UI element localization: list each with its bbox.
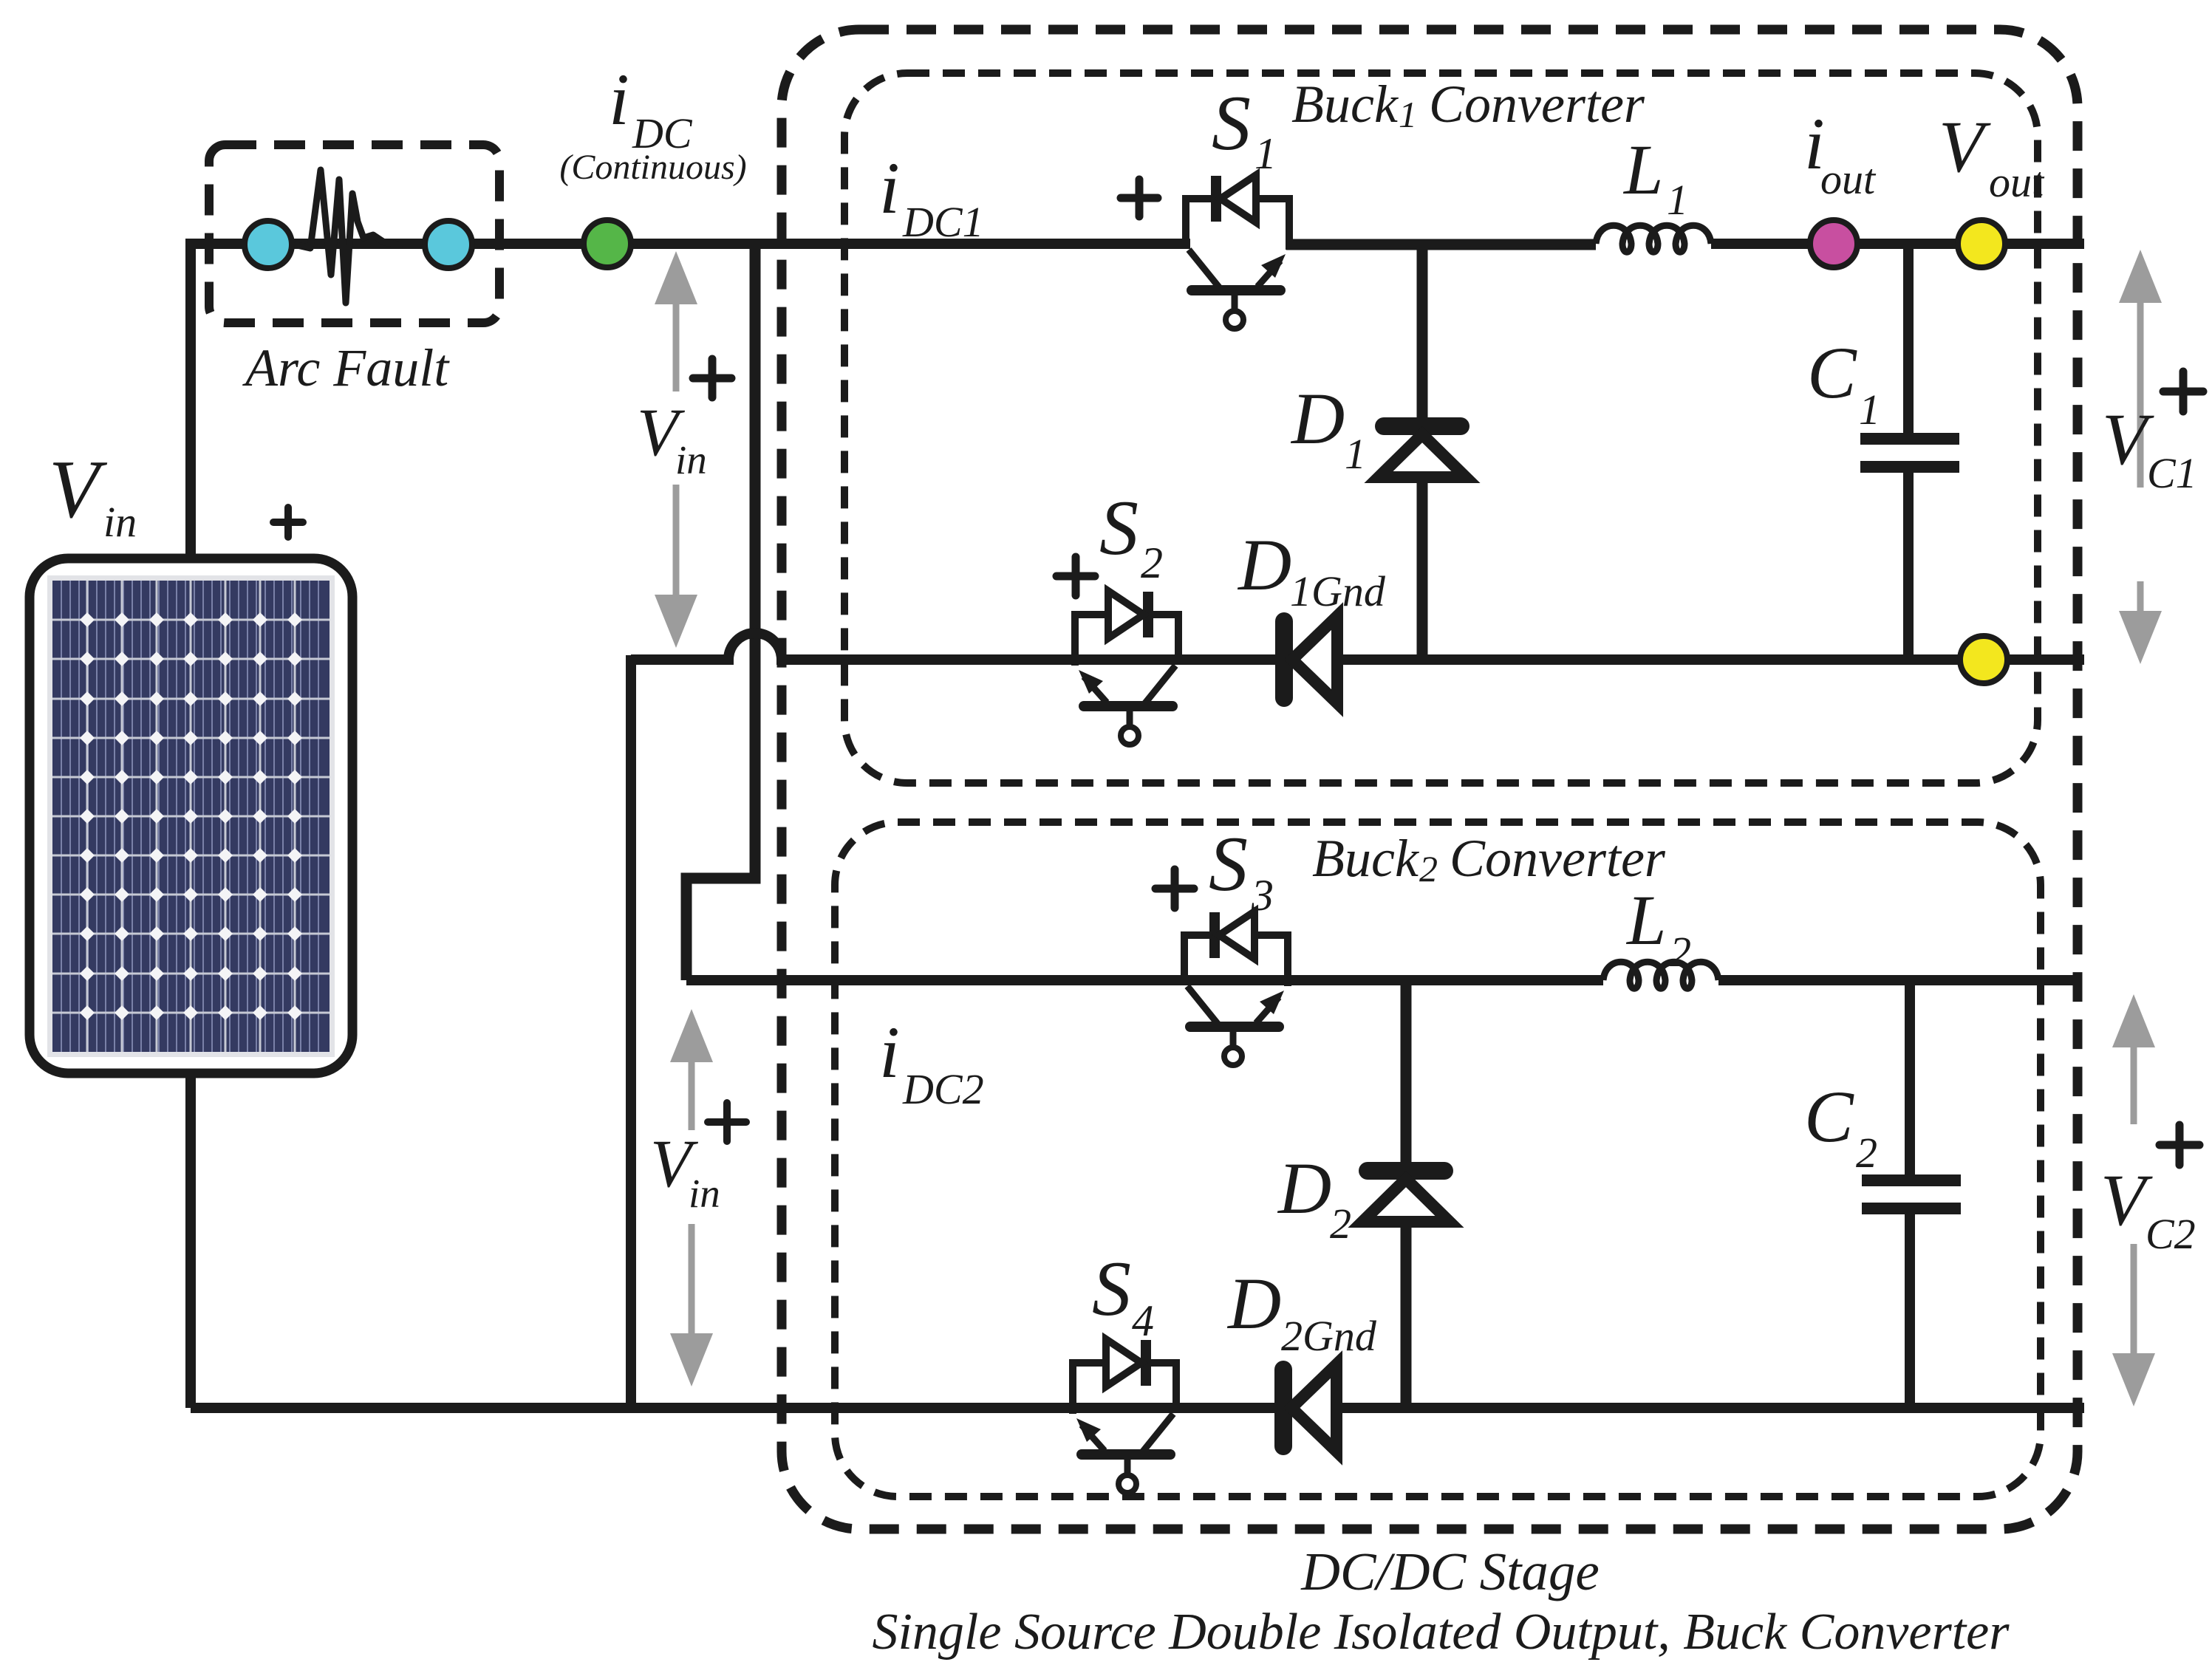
Vin arrow middle <box>673 299 680 391</box>
diode D1 <box>1379 426 1466 477</box>
svg-text:C: C <box>1804 1076 1854 1157</box>
svg-text:Buck: Buck <box>1312 829 1420 888</box>
svg-text:i: i <box>879 147 900 229</box>
svg-text:Arc Fault: Arc Fault <box>242 338 450 397</box>
svg-text:D: D <box>1277 1147 1331 1229</box>
Arc Fault dashed box <box>209 145 499 323</box>
diode D1Gnd <box>1284 616 1337 703</box>
VC1 arrow <box>2137 298 2144 488</box>
svg-text:in: in <box>103 498 137 546</box>
wire: C1 branch <box>1903 244 1914 660</box>
svg-text:L: L <box>1625 880 1666 960</box>
svg-text:L: L <box>1622 130 1663 209</box>
plus Vin middle <box>693 359 731 397</box>
svg-text:2Gnd: 2Gnd <box>1281 1312 1377 1360</box>
Buck2 Converter dashed box <box>835 822 2041 1497</box>
capacitor C2 <box>1862 1180 1961 1208</box>
svg-text:S: S <box>1212 80 1251 166</box>
PV panel source Vin <box>30 558 352 1073</box>
svg-text:S: S <box>1209 821 1248 907</box>
wire: C2 branch <box>1905 980 1915 1408</box>
svg-text:in: in <box>689 1171 720 1216</box>
capacitor C1 <box>1860 439 1959 467</box>
inductor L2 <box>1603 962 1718 988</box>
wire: Buck1 lower rail with hop over Vin rail <box>631 633 2084 660</box>
wire: D2 branch vertical <box>1401 980 1412 1408</box>
svg-text:1: 1 <box>1255 129 1277 178</box>
wire: Buck1 return vertical <box>626 655 636 1408</box>
node iout (magenta) <box>1810 220 1857 267</box>
switch S1 <box>1186 175 1289 329</box>
Buck1 Converter dashed box <box>844 73 2038 783</box>
svg-text:out: out <box>1989 158 2045 206</box>
diode D2Gnd <box>1283 1364 1337 1451</box>
svg-text:D: D <box>1226 1262 1281 1344</box>
svg-text:1: 1 <box>1345 430 1366 478</box>
Vin arrow lower <box>689 1058 695 1130</box>
svg-text:C1: C1 <box>2147 449 2197 497</box>
wire: D1 branch vertical <box>1417 244 1428 660</box>
wire: bottom ground rail <box>191 1403 2084 1413</box>
wire: PV positive terminal to top rail <box>185 244 196 563</box>
wire: iDC2 rail left <box>686 975 1603 985</box>
wire: PV negative terminal down <box>185 1069 196 1408</box>
switch S2 <box>1075 591 1178 745</box>
plus S2 <box>1056 557 1095 595</box>
svg-text:3: 3 <box>1251 871 1274 920</box>
svg-text:4: 4 <box>1132 1296 1154 1345</box>
svg-text:C: C <box>1807 332 1857 414</box>
svg-text:V: V <box>49 444 108 536</box>
node arc fault left (cyan) <box>245 221 292 268</box>
wire: Vin+ rail with step down to Buck2 <box>686 244 755 980</box>
svg-text:in: in <box>675 437 707 482</box>
svg-text:2: 2 <box>1670 928 1691 976</box>
wire: top rail L1 to right end <box>1711 239 2084 249</box>
svg-text:DC1: DC1 <box>902 198 984 246</box>
svg-text:2: 2 <box>1419 848 1438 889</box>
wire: top rail S1 to L1 <box>1286 239 1596 250</box>
VC2 arrow <box>2131 1043 2137 1124</box>
plus Vin lower <box>708 1103 746 1141</box>
plus S1 <box>1121 179 1158 216</box>
svg-text:Converter: Converter <box>1429 75 1645 134</box>
svg-text:(Continuous): (Continuous) <box>559 148 746 187</box>
svg-text:i: i <box>879 1011 900 1093</box>
switch S3 <box>1184 912 1288 1065</box>
svg-text:1: 1 <box>1859 386 1880 434</box>
svg-text:i: i <box>609 58 629 140</box>
plus PV positive <box>273 507 303 537</box>
svg-text:1Gnd: 1Gnd <box>1290 567 1386 615</box>
wire: Buck2 top rail L2 to right end <box>1718 975 2078 985</box>
arc fault spark squiggle <box>294 170 403 303</box>
inductor L1 <box>1596 225 1711 252</box>
node arc fault right (cyan) <box>425 221 472 268</box>
svg-text:Converter: Converter <box>1450 829 1666 888</box>
svg-text:DC2: DC2 <box>902 1065 984 1113</box>
svg-text:Buck: Buck <box>1291 75 1399 134</box>
switch S4 <box>1073 1339 1176 1493</box>
svg-text:2: 2 <box>1141 538 1163 587</box>
svg-text:2: 2 <box>1330 1200 1351 1248</box>
svg-text:1: 1 <box>1667 176 1688 224</box>
plus VC2 <box>2160 1125 2199 1165</box>
node Vout top (yellow) <box>1958 220 2005 267</box>
svg-text:D: D <box>1237 524 1291 606</box>
svg-text:S: S <box>1092 1245 1131 1332</box>
svg-text:D: D <box>1290 377 1345 459</box>
wire: top rail left segment <box>185 239 1190 249</box>
svg-text:S: S <box>1099 485 1139 571</box>
node Vout bottom (yellow) <box>1960 636 2007 683</box>
svg-text:out: out <box>1820 155 1877 203</box>
svg-text:C2: C2 <box>2146 1210 2196 1258</box>
diode D2 <box>1362 1171 1450 1222</box>
node iDC (green) <box>584 220 631 267</box>
svg-text:DC/DC Stage: DC/DC Stage <box>1300 1542 1600 1601</box>
DC/DC Stage outer dashed box <box>782 30 2078 1529</box>
svg-text:Single Source Double Isolated: Single Source Double Isolated Output, Bu… <box>872 1604 2010 1661</box>
svg-text:V: V <box>1939 106 1991 188</box>
plus VC1 <box>2163 372 2203 411</box>
svg-text:2: 2 <box>1856 1129 1877 1177</box>
svg-text:1: 1 <box>1399 94 1417 135</box>
plus S3 <box>1156 869 1194 908</box>
